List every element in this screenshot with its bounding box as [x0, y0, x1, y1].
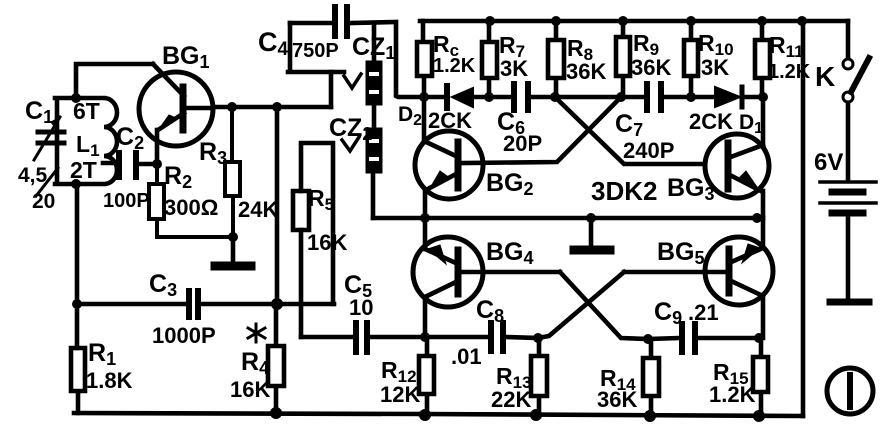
svg-text:.21: .21 [688, 300, 719, 325]
wire BG3 emitter down [761, 191, 766, 218]
svg-text:4,5: 4,5 [18, 164, 48, 187]
svg-text:1.8K: 1.8K [86, 368, 133, 393]
svg-text:2T: 2T [70, 157, 97, 183]
transistor BG4 [413, 237, 483, 307]
wire top supply rail [420, 19, 848, 24]
wire BG5 emitter down [761, 296, 766, 338]
resistor R13 [531, 338, 547, 416]
resistor R3 [225, 107, 240, 237]
node dots left [71, 93, 81, 103]
svg-text:3DK2: 3DK2 [591, 176, 657, 206]
svg-text:2CK: 2CK [689, 109, 733, 134]
svg-text:36K: 36K [597, 387, 637, 412]
wire mid emitter row [373, 216, 763, 221]
crystal CZ2 [367, 129, 381, 172]
wire C5 row [301, 335, 425, 340]
capacitor C5 [356, 323, 367, 352]
wire BG1 base row [213, 105, 331, 110]
capacitor C1 [38, 132, 64, 143]
wire C8 row [425, 337, 538, 338]
wire R5 loop [301, 143, 333, 337]
resistor R14 [643, 339, 659, 416]
svg-text:20: 20 [32, 190, 55, 213]
svg-text:36K: 36K [631, 55, 671, 80]
wire BG5 collector up [761, 218, 766, 248]
wire BG2 emitter down [423, 190, 428, 218]
capacitor C8 [491, 323, 503, 351]
svg-text:.01: .01 [451, 344, 482, 369]
capacitor C3 [189, 291, 198, 317]
crystal CZ1 [372, 23, 377, 62]
svg-text:1.2K: 1.2K [433, 55, 476, 77]
wire BG3 collector up [761, 97, 766, 145]
svg-text:10: 10 [349, 295, 373, 320]
wire BG2 collector up [422, 97, 427, 141]
resistor R7 [482, 21, 497, 97]
ground (mid) [589, 219, 594, 247]
wire long vertical from BG1 base node [275, 107, 280, 304]
capacitor C9 [682, 324, 695, 352]
indicator circle symbol [827, 368, 873, 414]
wire diode row [424, 95, 763, 100]
wire cross-coupling C7 to BG2 base [463, 97, 621, 163]
capacitor C2 [119, 153, 136, 177]
wire bottom rail [74, 413, 420, 414]
transistor BG1 [139, 72, 213, 146]
transistor BG2 [415, 131, 483, 199]
transistor BG5 [705, 237, 773, 305]
wire cross-coupling BG4 base to R14 [560, 272, 648, 339]
wire right return vertical [801, 21, 806, 416]
adjust squiggle under box [344, 74, 361, 88]
wire C9 row [648, 338, 759, 339]
asterisk mark [248, 324, 265, 342]
wire 750P box [288, 23, 344, 72]
resistor R10 [684, 21, 698, 97]
transistor BG3 [705, 134, 769, 198]
diode D2 [444, 86, 450, 108]
svg-text:2CK: 2CK [428, 108, 472, 133]
svg-text:22K: 22K [491, 387, 531, 412]
svg-text:100P: 100P [103, 190, 150, 212]
wire BG4 emitter down [423, 297, 428, 337]
ground (R2/R3 node) [231, 237, 236, 263]
resistor R11 [755, 21, 770, 97]
resistor R5 [293, 191, 309, 230]
wire cross-coupling C6 to BG3 base [555, 97, 705, 164]
inductor L1 [55, 98, 117, 184]
diode D1 [715, 87, 740, 107]
wire BG4 base row [462, 270, 560, 275]
battery 6V [820, 180, 876, 184]
svg-text:16K: 16K [307, 230, 347, 255]
resistor R8 [548, 21, 564, 97]
svg-text:K: K [815, 61, 835, 92]
resistor Rc [417, 21, 432, 97]
wire L1 top to BG1 collector [76, 64, 153, 98]
wire CZ1 to CZ2 [372, 104, 377, 129]
node dots mid row [420, 213, 430, 223]
wire left column down [75, 184, 80, 348]
wire C2 to node [139, 162, 157, 167]
svg-text:12K: 12K [380, 382, 420, 407]
node dots bottom rail [270, 407, 282, 419]
svg-text:6V: 6V [814, 149, 843, 176]
wire BG4 collector up [423, 218, 428, 249]
svg-text:36K: 36K [566, 59, 606, 84]
wire C3 row [77, 302, 334, 307]
svg-text:24K: 24K [238, 197, 278, 222]
svg-text:1000P: 1000P [152, 323, 216, 348]
svg-text:300Ω: 300Ω [164, 195, 218, 220]
wire BG1 emitter down [155, 130, 160, 164]
resistor R2 [149, 164, 233, 237]
svg-text:6T: 6T [73, 98, 100, 124]
node dots C8 row [420, 332, 430, 342]
svg-text:1.2K: 1.2K [709, 382, 756, 407]
switch K [846, 21, 851, 58]
resistor R9 [616, 21, 630, 97]
wire cross-coupling BG5 base to R13 [538, 272, 624, 338]
svg-text:240P: 240P [623, 138, 674, 163]
resistor R4 [268, 304, 284, 413]
arrow of C1 [34, 117, 60, 160]
wire L1 tap to C2 [103, 161, 116, 166]
wire CZ2 to mid row [371, 172, 376, 218]
wire BG5 base row [624, 270, 725, 275]
resistor R12 [419, 337, 434, 415]
wire box to base row [329, 72, 334, 107]
node dots top rail [485, 16, 495, 26]
svg-text:20P: 20P [503, 131, 542, 156]
svg-text:16K: 16K [230, 377, 270, 402]
slash between 4,5 and 20 [36, 168, 58, 196]
node dots C3 row [72, 299, 82, 309]
wire top-left with C4 [290, 22, 424, 97]
svg-text:3K: 3K [701, 55, 729, 80]
capacitor C6 [514, 84, 528, 110]
adjust squiggle CZ2 [342, 137, 359, 151]
resistor R15 [753, 338, 768, 416]
svg-text:1.2K: 1.2K [768, 61, 811, 83]
capacitor C7 [647, 84, 661, 110]
resistor R1 [71, 348, 85, 413]
node dots diode row [419, 92, 429, 102]
capacitor C4 [335, 7, 347, 36]
wire bottom rail right [420, 414, 803, 416]
svg-text:3K: 3K [500, 56, 528, 81]
svg-text:750P: 750P [292, 40, 339, 62]
